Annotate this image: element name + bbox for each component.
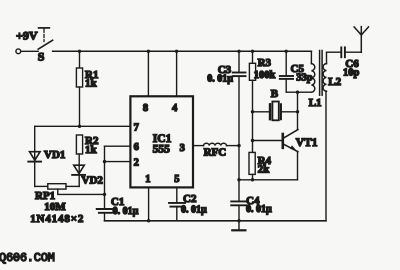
node emitter line joint [237,178,240,181]
node wiper junction [103,193,106,196]
node R4 bottom [251,178,254,181]
capacitor C4 [231,201,246,220]
node RFC output [237,144,240,147]
svg-text:0. 01µ: 0. 01µ [113,206,139,217]
svg-text:R3: R3 [258,57,272,69]
svg-text:2k: 2k [258,164,271,176]
wire pin4 to rail [176,51,178,96]
svg-text:0. 01µ: 0. 01µ [181,204,207,215]
transistor VT1 [239,112,298,180]
node base line left [251,139,254,142]
capacitor C1 [97,209,115,221]
svg-text:RP1: RP1 [35,190,55,202]
crystal B [253,102,298,121]
svg-text:555: 555 [153,144,171,156]
svg-text:L2: L2 [328,76,341,88]
svg-text:10M: 10M [44,201,66,213]
svg-text:RFC: RFC [204,147,227,159]
battery terminal symbol [39,28,50,42]
wire pin2 line [105,161,131,163]
diode VD2 [72,154,85,186]
node tank collector [296,91,299,94]
svg-text:1: 1 [145,174,150,185]
capacitor C6 [341,47,361,57]
node crystal right collector [296,110,299,113]
wire base line [253,140,283,142]
svg-text:7: 7 [134,123,139,134]
potentiometer RP1 [35,184,105,195]
node crystal left [251,110,254,113]
wire pin6 line [105,145,131,147]
switch S blade [38,40,52,49]
inductor L1 primary [311,51,314,92]
wire RFC to node [227,145,240,147]
node R1 top rail [78,50,81,53]
resistor R4 [249,141,255,180]
wire pin8 to rail [147,51,149,96]
node C4 ground rail [237,219,240,222]
svg-text:10p: 10p [343,67,360,78]
node R3 rail [251,50,254,53]
svg-text:100k: 100k [254,70,276,81]
resistor R2 [76,135,82,154]
capacitor C3 [233,51,246,145]
wire pin1 to ground rail [148,187,150,220]
diode VD1 [28,126,41,186]
svg-text:1N4148×2: 1N4148×2 [30,213,84,225]
svg-text:VD1: VD1 [44,149,65,161]
svg-text:6: 6 [134,142,139,153]
svg-text:S: S [38,50,45,64]
node pin1 rail [147,219,150,222]
wire ground rail [105,220,327,222]
node pin4 rail [175,50,178,53]
ground [232,221,245,231]
wire pin7 line [35,125,131,127]
wire pin5 to C2 [176,187,178,203]
capacitor C5 [280,51,312,92]
svg-text:VD2: VD2 [82,175,104,187]
svg-text:8: 8 [143,103,148,114]
transformer core [320,51,323,96]
wire +9V top rail [53,50,312,52]
resistor R3 [249,51,255,140]
svg-text:L1: L1 [309,97,322,109]
svg-text:0. 01µ: 0. 01µ [207,73,233,84]
svg-text:1k: 1k [85,144,98,156]
svg-text:1k: 1k [85,78,98,90]
antenna [354,27,368,53]
wire node to emitter line [238,146,240,202]
inductor L2 secondary [323,52,340,221]
svg-text:Q606.COM: Q606.COM [0,251,55,265]
input terminal [16,49,21,54]
svg-text:3: 3 [180,143,185,154]
svg-text:5: 5 [174,174,179,185]
svg-text:VT1: VT1 [296,137,318,149]
wire collector to tank [297,92,299,112]
svg-text:0. 01µ: 0. 01µ [246,204,272,215]
node pin2 junction [103,160,106,163]
svg-text:4: 4 [172,103,178,114]
svg-text:B: B [271,88,279,100]
capacitor C2 [169,203,185,221]
svg-text:33p: 33p [296,73,313,84]
svg-text:C2: C2 [183,193,197,205]
resistor R1 [76,51,82,126]
node pin8 rail [147,50,150,53]
node C5 rail [285,50,288,53]
node R1 R2 pin7 [78,125,81,128]
op-amp IC1 555 box [130,96,193,187]
wire terminal to switch [21,50,38,52]
inductor RFC [204,143,227,145]
svg-text:+9V: +9V [16,28,38,42]
svg-text:2: 2 [134,158,139,169]
node C3 rail [237,50,240,53]
wire pin6-pin2-C1 vertical [104,146,106,208]
wire pin3 stub [193,145,204,147]
